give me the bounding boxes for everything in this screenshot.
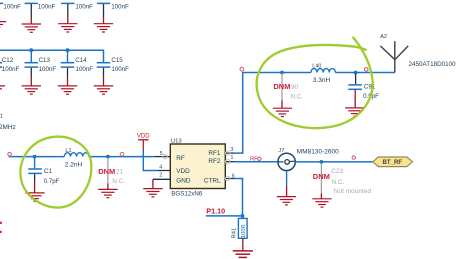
svg-text:100nF: 100nF	[111, 4, 129, 11]
capacitor 100nF top row #4	[94, 3, 129, 32]
antenna A2 2450AT18D0100	[380, 34, 456, 73]
svg-text:100nF: 100nF	[111, 66, 129, 73]
svg-text:21: 21	[116, 169, 124, 176]
svg-text:2.2nH: 2.2nH	[65, 161, 83, 168]
svg-text:90: 90	[291, 84, 299, 91]
svg-text:RF1: RF1	[208, 150, 221, 157]
node: junction at P1.10 wire	[241, 214, 245, 218]
pin stub: U13 pin 4	[158, 170, 170, 172]
svg-text:BGS12xN6: BGS12xN6	[171, 191, 203, 198]
pin stub: U13 pin 2 with ground	[153, 179, 170, 188]
capacitor C14 100nF	[58, 50, 93, 94]
pin stub + wire: RF2 to J7	[234, 161, 278, 163]
svg-text:L1: L1	[65, 148, 71, 154]
svg-text:N.C.: N.C.	[290, 93, 303, 100]
svg-text:C23: C23	[331, 168, 343, 175]
capacitor 100nF top row #1 (cut off at left edge)	[0, 3, 21, 30]
svg-text:BT_RF: BT_RF	[382, 159, 402, 166]
svg-text:4: 4	[159, 164, 162, 170]
node: junction at C91	[354, 71, 358, 75]
svg-text:100nF: 100nF	[38, 4, 56, 11]
svg-text:3: 3	[230, 147, 233, 153]
pin stub: U13 pin 6 (CTRL)	[225, 178, 234, 180]
svg-text:CTRL: CTRL	[204, 178, 221, 185]
capacitor C15 100nF	[94, 57, 129, 94]
ground at J7	[277, 197, 296, 205]
node: red marker circle on BT_RF wire	[352, 156, 355, 159]
svg-text:100R: 100R	[241, 224, 247, 238]
svg-text:A2: A2	[380, 34, 387, 40]
ground at U13 pin 2	[143, 189, 162, 197]
node: red marker circle on RF trace	[120, 152, 124, 156]
pin stub: U13 pin 3 (RF1)	[225, 152, 234, 154]
svg-text:2: 2	[159, 172, 162, 178]
annotation: green circle around L1/C1	[20, 137, 91, 208]
svg-text:100nF: 100nF	[2, 66, 20, 73]
capacitor C91 0.5pF	[345, 74, 379, 117]
svg-text:C15: C15	[111, 57, 123, 64]
op-amp U13 BGS12xN6 body	[170, 138, 225, 197]
svg-text:L40: L40	[312, 63, 321, 69]
wire: J7 shield to ground	[286, 171, 288, 186]
svg-text:1: 1	[230, 155, 233, 161]
svg-text:C13: C13	[39, 57, 51, 64]
wire: CTRL pin 6 down to R41	[234, 179, 243, 219]
capacitor 100nF top row #3	[58, 3, 93, 32]
svg-text:RF: RF	[250, 156, 258, 162]
node: junction at C23	[320, 160, 324, 164]
svg-text:Not mounted: Not mounted	[334, 188, 372, 195]
svg-text:2450AT18D0100: 2450AT18D0100	[409, 61, 457, 68]
svg-text:RF2: RF2	[208, 158, 221, 165]
svg-text:3.3nH: 3.3nH	[313, 77, 331, 84]
node: open wire start marker	[8, 153, 12, 157]
power symbol VDD	[137, 134, 150, 150]
svg-text:N.C.: N.C.	[332, 179, 345, 186]
svg-text:C14: C14	[75, 57, 87, 64]
svg-text:C12: C12	[2, 57, 14, 64]
wire: VDD to pin 4	[143, 150, 158, 171]
capacitor C21 (DNM, not mounted)	[98, 158, 125, 198]
node: junction at C21	[106, 155, 110, 159]
svg-text:VDD: VDD	[176, 168, 190, 175]
svg-text:VDD: VDD	[137, 134, 150, 140]
node: red marker circle on RF1 riser	[240, 67, 244, 71]
svg-text:100nF: 100nF	[75, 4, 93, 11]
svg-text:100nF: 100nF	[39, 66, 57, 73]
inductor L1 2.2nH	[64, 148, 88, 168]
pin stub: U13 pin 1 (RF2)	[225, 161, 234, 163]
pin circle marker pin 3	[226, 151, 230, 155]
inductor L40 3.3nH	[311, 63, 335, 84]
capacitor C1 0.7pF	[25, 157, 59, 202]
svg-text:100nF: 100nF	[76, 66, 94, 73]
annotation: green circle around L40/C91 with tail	[257, 38, 373, 129]
capacitor C13 100nF	[22, 50, 57, 94]
wire: J7 to BT_RF port	[295, 161, 372, 163]
text fragment red marks bottom left	[0, 222, 2, 224]
svg-text:RF: RF	[176, 155, 185, 162]
svg-text:P1.10: P1.10	[206, 207, 225, 216]
svg-text:0.7pF: 0.7pF	[44, 178, 60, 185]
svg-text:J7: J7	[278, 148, 284, 154]
wire: RF1 up to antenna feed	[234, 73, 311, 154]
node: bus junction at C14	[66, 48, 70, 52]
node: junction at C1	[33, 155, 37, 159]
node: red marker circle near C91	[364, 68, 368, 72]
svg-text:1: 1	[0, 114, 3, 120]
pin circle marker pin 5	[163, 155, 167, 159]
capacitor C23 (DNM, not mounted)	[312, 163, 371, 207]
svg-text:5: 5	[160, 151, 163, 157]
capacitor C12 100nF (cut off at left edge)	[0, 57, 20, 94]
svg-text:C1: C1	[44, 168, 52, 175]
pin circle marker pin 1	[226, 160, 230, 164]
port BT_RF	[373, 157, 413, 167]
svg-text:N.C.: N.C.	[112, 178, 125, 185]
svg-text:MM8130-2600: MM8130-2600	[297, 149, 339, 156]
wire: P1.10 stub	[206, 215, 243, 217]
pin stub: U13 pin 5	[155, 156, 170, 158]
svg-text:U13: U13	[171, 138, 183, 144]
svg-text:R41: R41	[232, 228, 238, 239]
wire: main RF trace after L1	[89, 156, 155, 158]
wire: decoupling bus (row 2)	[0, 50, 104, 62]
ground at R41 (large, cut off at bottom)	[233, 251, 253, 258]
svg-text:GND: GND	[176, 178, 191, 185]
svg-text:2MHz: 2MHz	[0, 124, 16, 131]
svg-text:C91: C91	[364, 84, 376, 91]
wire: antenna feed after L40	[336, 72, 395, 74]
connector J7 MM8130-2600	[278, 148, 339, 170]
svg-text:DNM: DNM	[273, 82, 290, 91]
svg-text:100nF: 100nF	[3, 4, 21, 11]
capacitor 100nF top row #2	[22, 3, 56, 32]
capacitor C90 (DNM, not mounted)	[273, 74, 304, 117]
wire: main RF trace left segment	[9, 156, 65, 158]
node: red marker circle after RF label	[258, 157, 261, 160]
resistor R41 100R	[232, 218, 247, 250]
svg-text:DNM: DNM	[313, 172, 330, 181]
svg-text:DNM: DNM	[98, 167, 115, 176]
pin circle marker pin 6	[226, 176, 230, 180]
node: bus junction at C13	[29, 48, 33, 52]
node: junction at C90	[280, 71, 284, 75]
